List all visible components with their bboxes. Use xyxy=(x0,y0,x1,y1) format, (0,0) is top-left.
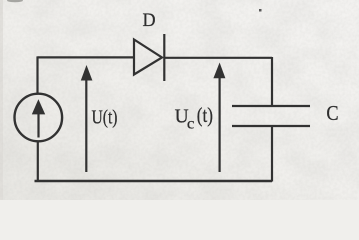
label Uc(t) xyxy=(175,104,213,133)
voltage arrow U(t) xyxy=(81,65,93,172)
svg-text:C: C xyxy=(326,101,338,125)
current source I1 circle xyxy=(15,94,63,142)
speck artifact xyxy=(259,9,262,12)
svg-text:c: c xyxy=(187,115,195,132)
wire bottom horizontal xyxy=(35,180,273,182)
wire right vertical upper xyxy=(271,57,273,106)
svg-text:(t): (t) xyxy=(197,104,213,127)
wire top-left horizontal xyxy=(38,56,135,58)
wire left vertical lower xyxy=(37,141,39,182)
svg-text:U(t): U(t) xyxy=(92,106,118,128)
wire top-right horizontal xyxy=(164,57,272,59)
capacitor C top plate xyxy=(232,105,310,107)
wire left vertical upper xyxy=(36,56,38,94)
svg-text:D: D xyxy=(143,11,156,31)
diode D cathode bar xyxy=(163,34,165,81)
smudge artifact top-left xyxy=(7,0,23,2)
capacitor C bottom plate xyxy=(232,125,310,127)
wire right vertical lower xyxy=(271,127,273,182)
voltage arrow Uc(t) xyxy=(213,63,225,173)
diode D triangle xyxy=(134,40,162,75)
current source I1 arrow xyxy=(32,99,45,137)
